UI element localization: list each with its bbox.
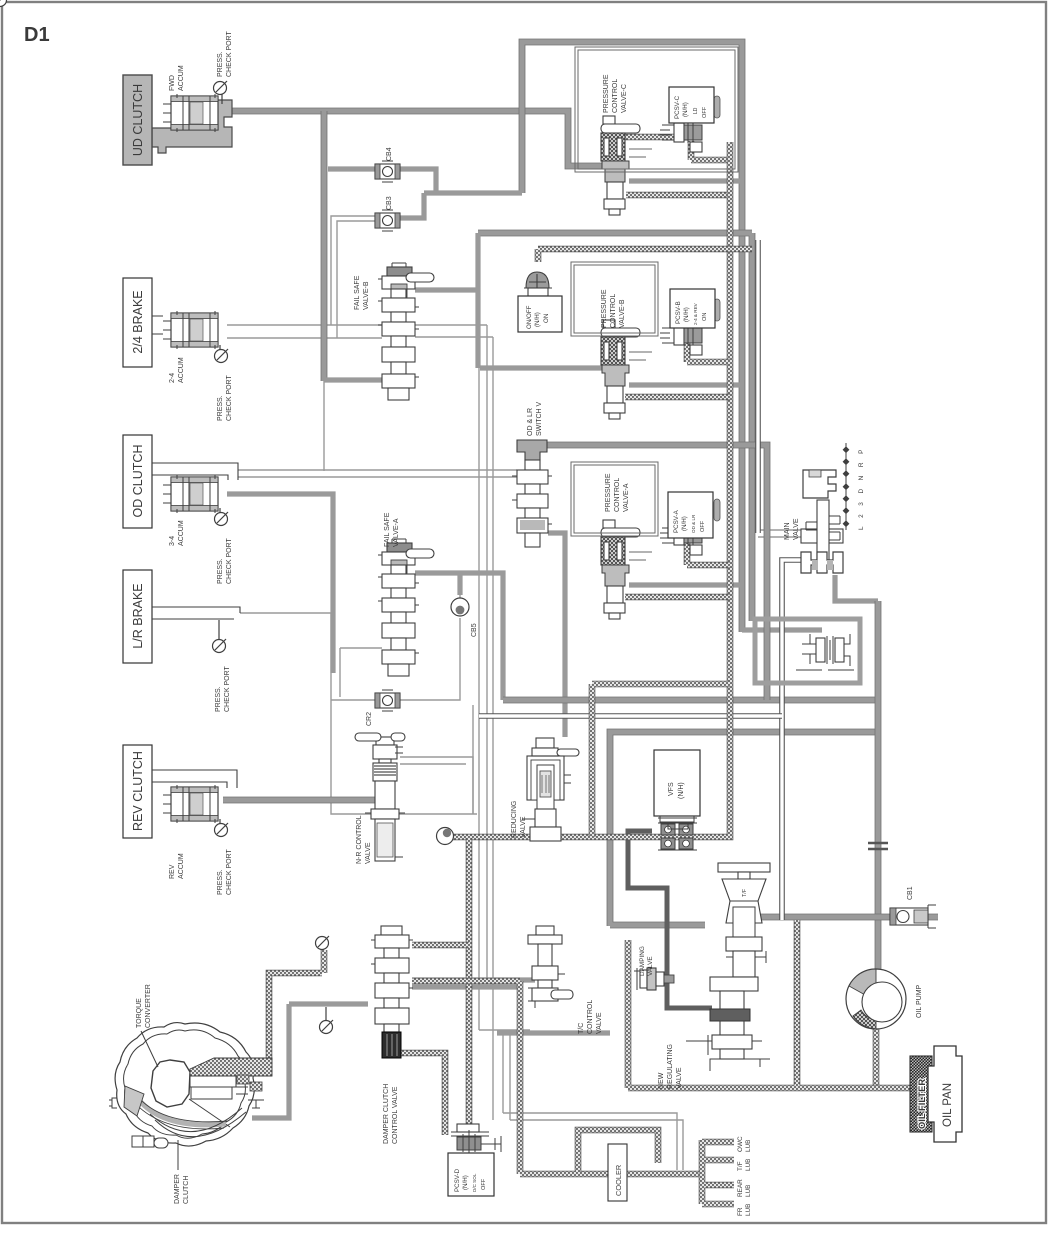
label FAIL SAFE VALVE-B (354, 275, 370, 310)
svg-text:PRESSURE: PRESSURE (601, 289, 608, 328)
svg-text:D/C SOL: D/C SOL (472, 1173, 477, 1192)
wire: OD-LR switch lower branch (548, 533, 565, 737)
svg-text:CB1: CB1 (907, 886, 914, 900)
wire: trunk y700 to main bus (503, 697, 876, 704)
svg-text:OIL PAN: OIL PAN (942, 1083, 954, 1127)
label N-R CONTROL VALVE (356, 815, 372, 864)
wire: pump suction line with CB1 (756, 914, 938, 921)
main valve manual detent plate (803, 470, 836, 498)
main valve mid body (801, 529, 843, 543)
svg-text:PRESS.: PRESS. (215, 686, 222, 712)
label PRESS. CHECK PORT (UD) (217, 31, 233, 77)
label FR LUB (737, 1204, 752, 1216)
svg-text:DAMPER: DAMPER (174, 1174, 181, 1204)
check ball CR2 (375, 690, 400, 711)
svg-text:VALVE-A: VALVE-A (623, 483, 630, 512)
wire: L/R brake line down to CR2 (240, 613, 477, 814)
wire: PCV-C spare ports (629, 149, 652, 157)
label REV ACCUM (169, 853, 185, 879)
fail safe valve A (378, 539, 419, 676)
label FWD ACCUM (169, 65, 185, 91)
reducing valve (522, 738, 579, 841)
svg-text:LUB: LUB (745, 1204, 752, 1216)
label PRESSURE CONTROL VALVE-C (603, 74, 628, 113)
OD CLUTCH box (123, 435, 152, 528)
svg-text:CHECK PORT: CHECK PORT (224, 666, 231, 712)
wire: gray thin pipes to cooler right loop (503, 1030, 683, 1170)
svg-text:(N/H): (N/H) (534, 312, 541, 327)
ON/OFF box (518, 296, 562, 332)
wire: hatched PCV-A output (625, 594, 730, 601)
wire: hatched PCSV-C return to bus (691, 141, 730, 160)
svg-text:PRESS.: PRESS. (217, 395, 224, 421)
wire: hatched drop to PCSV-D (466, 838, 473, 1130)
PCSV-B solenoid (660, 321, 702, 355)
oil pump coupler on bus (868, 843, 888, 849)
enclosure frame C (575, 47, 738, 172)
wire: OD-LR switch output piped line (547, 445, 767, 700)
wire: 3-4 accum line (227, 494, 333, 673)
svg-text:VALVE: VALVE (520, 816, 527, 838)
damper clutch control valve (371, 926, 413, 1058)
svg-text:OIL PUMP: OIL PUMP (916, 984, 923, 1018)
wire: hatched y684 branch (592, 684, 730, 837)
label MAIN VALVE (784, 518, 800, 540)
label OWC LUB (737, 1136, 752, 1152)
label PRESSURE CONTROL VALVE-B (601, 289, 626, 328)
enclosure frame B (571, 262, 658, 336)
press check port (UD) (0, 0, 7, 7)
svg-text:CONTROL VALVE: CONTROL VALVE (392, 1086, 399, 1144)
svg-text:CONTROL: CONTROL (612, 79, 619, 113)
L/R BRAKE pipe (152, 607, 240, 619)
svg-text:OD CLUTCH: OD CLUTCH (131, 445, 145, 518)
ON/OFF solenoid dome (524, 272, 552, 296)
svg-text:OIL FILTER: OIL FILTER (916, 1079, 927, 1129)
svg-text:CHECK PORT: CHECK PORT (226, 849, 233, 895)
label PRESS. CHECK PORT (REV) (217, 849, 233, 895)
label 3-4 ACCUM (169, 520, 185, 546)
svg-text:L/R BRAKE: L/R BRAKE (131, 583, 145, 648)
wire: PCV-A lower feed from bus (629, 582, 742, 587)
3-4 accumulator (163, 475, 218, 513)
oil pan (928, 1046, 962, 1142)
svg-text:FAIL SAFE: FAIL SAFE (354, 275, 361, 310)
label DAMPER CLUTCH CONTROL VALVE (383, 1084, 399, 1144)
oil pump (846, 969, 906, 1029)
VFS solenoid (658, 818, 697, 850)
svg-text:T/F: T/F (737, 1161, 744, 1171)
pressure control valve B body (601, 320, 640, 419)
wire: hatched lube comb (702, 1140, 734, 1204)
svg-text:VALVE-B: VALVE-B (363, 281, 370, 310)
wire: PCV-A spare ports (629, 552, 652, 560)
PCSV-A box (668, 492, 713, 538)
oil filter (910, 1056, 932, 1132)
svg-text:VALVE: VALVE (647, 956, 654, 976)
svg-text:CB5: CB5 (471, 623, 478, 637)
svg-text:LUB: LUB (745, 1140, 752, 1152)
label REDUCING VALVE (511, 801, 527, 838)
svg-text:PRESSURE: PRESSURE (603, 74, 610, 113)
wire: CR2 to CB5 riser (400, 578, 460, 700)
check ball CB5 in circle (451, 598, 469, 616)
wire: 2-4 accum thin pair to fail-safe valve B (227, 325, 382, 338)
wire: thin N-R to damper area (479, 980, 530, 1030)
wire: 2-4 trunk to PCV-B (480, 365, 604, 370)
check ball CB1 (890, 905, 936, 928)
FWD accumulator (163, 94, 218, 132)
label DAMPING VALVE (639, 946, 654, 976)
svg-text:ACCUM: ACCUM (178, 357, 185, 383)
wire: PCV-B lower feed from bus (629, 382, 742, 387)
svg-text:ACCUM: ACCUM (178, 65, 185, 91)
svg-text:OD & LR: OD & LR (691, 514, 696, 533)
label DAMPER CLUTCH (174, 1174, 190, 1204)
svg-text:MAIN: MAIN (784, 523, 791, 541)
PCSV-B plunger pill (714, 299, 720, 321)
svg-text:(N/H): (N/H) (682, 102, 689, 117)
wire: hatched PCSV-A return (687, 543, 730, 565)
svg-text:UD CLUTCH: UD CLUTCH (131, 84, 145, 156)
wire: CB4 feed bus from UD line (321, 111, 328, 381)
wire: white pipe y716 (479, 713, 782, 719)
pressure control valve C body (601, 116, 640, 215)
wire: DCCV right ports to T/C control valve (412, 980, 535, 987)
wire: middle thin bundle verticals (473, 325, 493, 1120)
VFS box (654, 750, 700, 816)
tap circle on DCCV feed line (320, 1020, 334, 1034)
PCSV-C plunger pill (714, 96, 720, 118)
wire: PCV-C lower feed from bus (629, 178, 742, 183)
svg-text:3-4: 3-4 (169, 536, 176, 546)
new regulating valve (686, 863, 770, 1071)
gear position indicator line (843, 443, 848, 530)
label REAR LUB (737, 1179, 752, 1197)
wire: hatched PCSV-C output (625, 134, 684, 141)
svg-text:D1: D1 (24, 24, 50, 46)
wire: hatched DCCV top port (412, 942, 469, 949)
svg-text:COOLER: COOLER (614, 1165, 623, 1196)
switch assembly component (796, 634, 854, 670)
svg-text:PCSV-B: PCSV-B (675, 301, 682, 324)
cooler box (608, 1144, 627, 1201)
label 2-4 ACCUM (169, 357, 185, 383)
wire: hatched on/off solenoid line (538, 249, 752, 262)
PCSV-C solenoid (660, 118, 702, 152)
svg-text:(N/H): (N/H) (678, 782, 685, 799)
REV accumulator (163, 785, 218, 823)
UD CLUTCH box (123, 75, 152, 165)
svg-text:REV: REV (169, 864, 176, 879)
OD & LR switch valve (512, 440, 552, 547)
svg-text:T/F: T/F (742, 888, 748, 897)
svg-text:REGULATING: REGULATING (667, 1044, 674, 1089)
svg-text:ON: ON (543, 314, 550, 323)
wire: hatched cooler feed bus (412, 981, 702, 1174)
check ball on reducing valve line (437, 828, 454, 845)
wire: hatched PCSV-B return (687, 340, 730, 362)
svg-text:CHECK PORT: CHECK PORT (226, 538, 233, 584)
svg-text:LUB: LUB (745, 1159, 752, 1171)
svg-text:N-R CONTROL: N-R CONTROL (356, 815, 363, 864)
2-4 accumulator (163, 311, 218, 349)
wire: gray y1033 link (497, 1030, 610, 1035)
press check port (L/R) (213, 639, 227, 653)
svg-text:PRESSURE: PRESSURE (605, 473, 612, 512)
PCSV-A plunger pill (714, 499, 720, 521)
check ball CB3 (375, 210, 400, 231)
enclosure frame A (571, 462, 658, 536)
pressure control valve A body (601, 520, 640, 619)
label TORQUE CONVERTER (136, 984, 152, 1028)
PCSV-C box (669, 87, 714, 123)
svg-text:FR: FR (737, 1207, 744, 1216)
svg-text:VALVE: VALVE (365, 842, 372, 864)
svg-text:L23DNRP: L23DNRP (858, 441, 865, 530)
check ball CB4 (375, 161, 400, 182)
svg-text:PCSV-C: PCSV-C (674, 95, 681, 119)
label FAIL SAFE VALVE-A (384, 512, 400, 547)
svg-text:LD: LD (693, 107, 699, 114)
label PRESSURE CONTROL VALVE-A (605, 473, 630, 512)
label PRESS. CHECK PORT (3-4) (217, 538, 233, 584)
svg-text:ACCUM: ACCUM (178, 853, 185, 879)
T/C control valve (528, 926, 573, 1008)
svg-text:(N/H): (N/H) (462, 1175, 469, 1190)
2/4 BRAKE box (123, 278, 152, 367)
wire: trunk riser x478 (477, 290, 479, 368)
fail safe valve B spring pill (406, 273, 434, 282)
OD CLUTCH pipe (152, 463, 238, 480)
svg-text:PRESS.: PRESS. (217, 869, 224, 895)
torque converter pointer line (141, 1031, 158, 1067)
press check port (REV) (215, 823, 229, 837)
wire: hatched PCV-C second output (626, 192, 730, 199)
svg-text:CB4: CB4 (386, 147, 393, 161)
wire: pump to filter drop (873, 1028, 880, 1090)
label OD & LR SWITCH V (527, 401, 543, 436)
PCSV-B box (670, 289, 715, 328)
N-R control valve (355, 733, 405, 861)
wire: PCV-B spare ports (629, 352, 652, 360)
svg-text:VALVE-A: VALVE-A (393, 518, 400, 547)
wire: fail-safe B output trunk to bus (478, 233, 752, 621)
damper clutch pointer line (177, 1140, 179, 1170)
svg-text:NEW: NEW (658, 1072, 665, 1089)
svg-text:REDUCING: REDUCING (511, 801, 518, 838)
label PRESS. CHECK PORT (2-4) (217, 375, 233, 421)
wire: manual valve output to main bus (835, 575, 878, 601)
svg-text:TORQUE: TORQUE (136, 998, 143, 1028)
2/4 BRAKE pipe (152, 316, 163, 334)
wire: trunk y732 and riser x610 (610, 732, 876, 926)
svg-text:PCSV-A: PCSV-A (673, 509, 680, 533)
svg-text:FAIL SAFE: FAIL SAFE (384, 512, 391, 547)
REV CLUTCH box (123, 745, 152, 838)
svg-text:ACCUM: ACCUM (178, 520, 185, 546)
L/R BRAKE box (123, 570, 152, 663)
wire: hatched cooler loop (578, 1130, 658, 1172)
svg-text:CHECK PORT: CHECK PORT (226, 31, 233, 77)
svg-text:REV CLUTCH: REV CLUTCH (131, 751, 145, 831)
label T/F LUB (737, 1159, 752, 1171)
svg-text:FWD: FWD (169, 75, 176, 91)
svg-text:CONTROL: CONTROL (614, 478, 621, 512)
torque converter (109, 1023, 272, 1148)
wire: bus y630 link (742, 627, 822, 632)
wire: hatched torque converter feed (269, 950, 324, 1060)
svg-text:(N/H): (N/H) (681, 516, 688, 531)
wire: N-R control valve outputs (400, 757, 473, 814)
press check port (3-4) (215, 512, 229, 526)
svg-text:VALVE-B: VALVE-B (619, 299, 626, 328)
svg-text:VFS: VFS (668, 782, 675, 796)
wire: top supply bus from CB junction (522, 42, 742, 632)
damping valve (634, 968, 674, 990)
wire: CB3 thin branches down to 2-4 lines (331, 216, 375, 338)
svg-text:CONTROL: CONTROL (610, 294, 617, 328)
wire: fail-safe A foot loop (340, 648, 382, 697)
svg-text:OFF: OFF (700, 520, 706, 532)
PCSV-D solenoid (451, 1124, 501, 1156)
svg-text:CONVERTER: CONVERTER (145, 984, 152, 1028)
svg-text:PRESS.: PRESS. (217, 51, 224, 77)
wire: hatched DCCV bottom to PCSV-D (382, 1053, 445, 1135)
svg-text:ON: ON (702, 313, 708, 321)
svg-text:VALVE-C: VALVE-C (621, 84, 628, 113)
REV CLUTCH pipe (152, 770, 237, 788)
VFS box foot (660, 816, 694, 829)
svg-text:CLUTCH: CLUTCH (183, 1176, 190, 1204)
wire: hatched PCV-B output (625, 394, 730, 401)
svg-text:VALVE: VALVE (676, 1067, 683, 1089)
wire: VFS dark line to regulating valve (628, 831, 712, 1008)
fail safe valve A spring pill (406, 549, 434, 558)
svg-text:ON/OFF: ON/OFF (526, 305, 533, 329)
svg-text:PRESS.: PRESS. (217, 558, 224, 584)
svg-text:T/C: T/C (578, 1023, 585, 1034)
wire: white pipe from main valve down to regulating valve (782, 560, 803, 920)
label T/C CONTROL VALVE (578, 1000, 603, 1034)
svg-text:PCSV-D: PCSV-D (454, 1168, 461, 1192)
wire: hatched right bus (445, 142, 730, 837)
tap circle on TC hatch line (316, 936, 330, 950)
svg-text:2-4 & REV: 2-4 & REV (693, 302, 698, 325)
svg-text:DAMPING: DAMPING (639, 946, 646, 976)
PCSV-D box (448, 1153, 494, 1196)
svg-text:LUB: LUB (745, 1185, 752, 1197)
wire: UD clutch main line to PCV-C (222, 111, 604, 166)
label PRESS. CHECK PORT (L/R) (215, 666, 231, 712)
svg-text:SWITCH V: SWITCH V (536, 401, 543, 436)
wire: fail-safe A output (415, 573, 503, 700)
wire: white pipe feed to manual valve (755, 240, 761, 533)
svg-text:CB3: CB3 (386, 196, 393, 210)
svg-text:VALVE: VALVE (793, 518, 800, 540)
svg-text:CR2: CR2 (366, 712, 373, 726)
wire: OD clutch thin pair to OD-LR switch (238, 470, 517, 477)
svg-text:2/4 BRAKE: 2/4 BRAKE (131, 290, 145, 353)
svg-text:CONTROL: CONTROL (587, 1000, 594, 1034)
svg-text:REAR: REAR (737, 1179, 744, 1197)
switch assembly gray box (755, 619, 860, 683)
wire: manual valve feed pair (758, 530, 801, 537)
wire: main pressure bus to oil pump (875, 601, 882, 970)
svg-text:OWC: OWC (737, 1136, 744, 1152)
wire: DCCV left feed (252, 1004, 368, 1118)
svg-text:OD & LR: OD & LR (527, 408, 534, 436)
svg-text:VALVE: VALVE (596, 1012, 603, 1034)
svg-text:2-4: 2-4 (169, 373, 176, 383)
wire: hatched regulating valve loop (628, 920, 913, 1088)
svg-text:CHECK PORT: CHECK PORT (226, 375, 233, 421)
svg-text:(N/H): (N/H) (683, 307, 690, 322)
svg-text:OFF: OFF (702, 106, 708, 118)
PCSV-A solenoid (660, 521, 702, 555)
wire: rev clutch line to N-R valve (223, 797, 375, 804)
label NEW REGULATING VALVE (658, 1044, 683, 1089)
main valve stem (806, 500, 840, 560)
wire: CB3/CB4 outputs to top bus (400, 169, 522, 218)
svg-text:OFF: OFF (481, 1178, 487, 1190)
svg-text:DAMPER CLUTCH: DAMPER CLUTCH (383, 1084, 390, 1144)
press check port (2-4) (215, 349, 229, 363)
UD CLUTCH supply pipe (152, 100, 232, 153)
wire: thin riser x479 top (415, 325, 493, 337)
fail safe valve B (378, 263, 419, 400)
main valve lower body (801, 552, 843, 573)
